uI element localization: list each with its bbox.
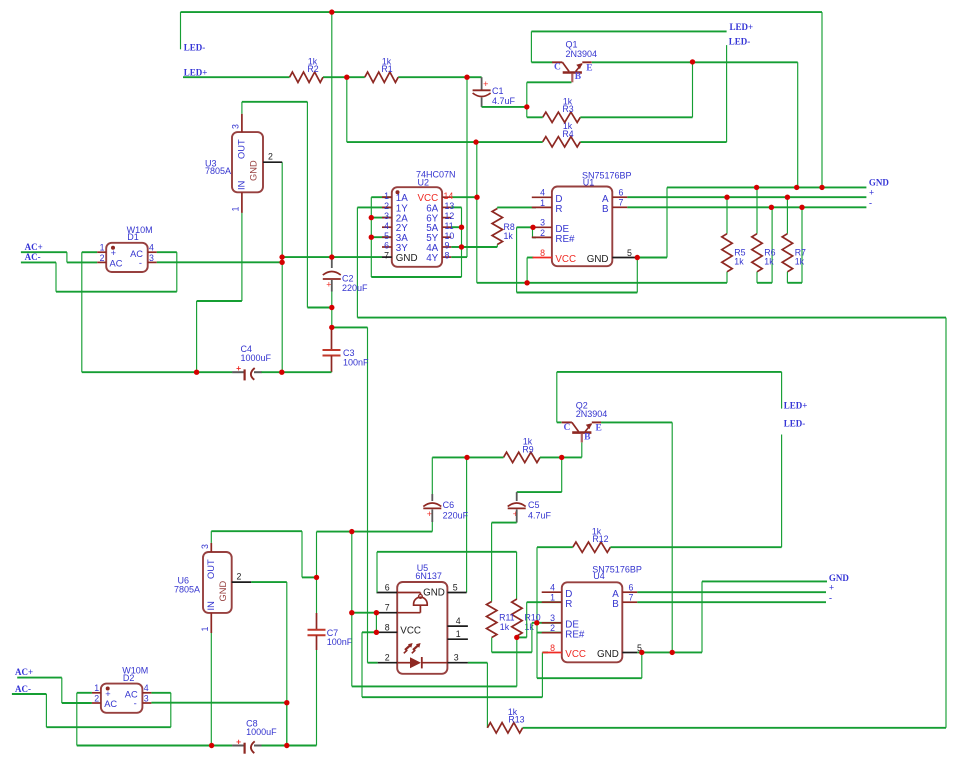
svg-text:220uF: 220uF	[342, 283, 368, 293]
svg-text:2: 2	[385, 653, 390, 663]
svg-text:+: +	[483, 79, 488, 89]
svg-text:U2: U2	[418, 178, 430, 188]
svg-text:2N3904: 2N3904	[566, 49, 598, 59]
wire LED- right vertical to R4	[726, 45, 728, 142]
wire LED- stub left	[180, 12, 182, 49]
wire AC- to D1 pin4	[21, 252, 177, 292]
svg-text:3: 3	[540, 218, 545, 228]
capacitor C8 1000uF	[232, 719, 277, 754]
svg-text:+: +	[111, 248, 116, 258]
svg-text:-: -	[139, 258, 142, 268]
svg-text:4: 4	[144, 683, 149, 693]
svg-text:3: 3	[149, 253, 154, 263]
wire VCC pin14 feed vertical	[476, 142, 478, 197]
wire VCC1 rail to U1 pin8 and R5	[477, 197, 727, 283]
wire U4 A line to plus label	[637, 591, 826, 593]
capacitor C7 100nF	[308, 613, 353, 650]
svg-text:LED-: LED-	[729, 37, 751, 47]
wire Q2 collector to LED+ label bottom	[557, 372, 782, 423]
wire U1 pin5 GND to GND1 line	[637, 187, 667, 257]
svg-text:B: B	[575, 72, 582, 82]
voltage regulator U3 7805A	[205, 114, 282, 213]
resistor R7 1k	[782, 197, 806, 283]
svg-text:2: 2	[100, 253, 105, 263]
svg-text:7: 7	[384, 251, 389, 261]
node LED+ label bottom	[784, 401, 808, 411]
svg-text:9: 9	[445, 241, 450, 251]
svg-text:10: 10	[445, 231, 455, 241]
node minus label right top	[869, 198, 872, 208]
svg-text:LED-: LED-	[184, 43, 206, 53]
wire U2 pins 13 11 9 tie	[451, 207, 461, 277]
optocoupler U5 6N137	[377, 563, 468, 674]
wire DE RE jumper to GND2 row	[537, 652, 642, 678]
svg-text:5: 5	[627, 248, 632, 258]
node GND label bottom	[829, 573, 850, 583]
wire U6 GND down	[251, 582, 286, 745]
wire DE RE to GND	[517, 227, 638, 292]
wire U2 inputs tie pins 1 3 5	[371, 197, 461, 277]
svg-text:1k: 1k	[500, 622, 510, 632]
wire C4 raw plus rail	[82, 252, 233, 372]
resistor R4	[543, 121, 581, 147]
node LED- label left	[184, 43, 206, 53]
svg-text:C2: C2	[342, 274, 354, 284]
svg-text:100nF: 100nF	[343, 358, 369, 368]
svg-text:1: 1	[384, 191, 389, 201]
svg-text:R4: R4	[562, 129, 573, 139]
svg-text:C6: C6	[443, 500, 455, 510]
wire U5 pin6 to R10 top	[377, 552, 517, 599]
svg-text:VCC: VCC	[400, 626, 421, 637]
capacitor C5 4.7uF	[508, 457, 562, 522]
node GND label right top	[869, 178, 890, 188]
svg-text:GND: GND	[423, 587, 445, 598]
wire GND2 label line	[702, 581, 827, 652]
svg-text:11: 11	[445, 221, 454, 231]
svg-text:-: -	[869, 198, 872, 208]
svg-text:R11: R11	[499, 612, 515, 622]
svg-text:7: 7	[385, 603, 390, 613]
node LED- label right	[729, 37, 751, 47]
svg-text:4: 4	[149, 243, 154, 253]
wire U4 pin5 GND row	[637, 651, 702, 653]
wire AC+ to D1 pin2	[21, 252, 97, 262]
wire LED- label bottom to R12	[781, 435, 783, 548]
node AC- label bottom	[15, 684, 31, 694]
wire U3 IN from C4 plus	[197, 213, 242, 372]
svg-text:U4: U4	[593, 571, 605, 581]
svg-text:1000uF: 1000uF	[246, 727, 277, 737]
wire VCC1 from R1/R2 node down to R4 line	[346, 77, 348, 142]
wire R9 line GND2	[432, 456, 561, 458]
svg-text:+: +	[869, 187, 874, 197]
resistor R12 1k	[573, 526, 611, 552]
svg-text:2N3904: 2N3904	[576, 409, 608, 419]
svg-text:1k: 1k	[764, 256, 774, 266]
svg-text:B: B	[602, 204, 609, 215]
bridge rectifier D1 W10M	[97, 225, 157, 272]
svg-text:+: +	[427, 509, 432, 519]
svg-text:3: 3	[454, 653, 459, 663]
svg-text:R1: R1	[381, 64, 392, 74]
node plus label bottom	[829, 583, 834, 593]
wire C7 column VCC2	[316, 532, 318, 613]
wire R11 bottom to DE node	[492, 623, 537, 653]
node AC+ label bottom	[15, 667, 33, 677]
svg-text:C: C	[554, 63, 561, 73]
capacitor C3 100nF	[323, 327, 370, 372]
svg-text:C3: C3	[343, 348, 355, 358]
svg-text:-: -	[134, 698, 137, 708]
svg-text:GND: GND	[396, 253, 418, 264]
wire AC+ to D2 pin2	[17, 678, 92, 703]
svg-text:1k: 1k	[504, 231, 514, 241]
svg-text:OUT: OUT	[206, 559, 216, 579]
svg-text:-: -	[829, 593, 832, 603]
capacitor C6 220uF	[423, 457, 468, 531]
svg-text:+: +	[326, 280, 331, 290]
svg-text:U1: U1	[583, 178, 595, 188]
wire Q2 base node	[562, 443, 582, 458]
resistor R2	[290, 57, 323, 83]
svg-text:8: 8	[445, 251, 450, 261]
wire Q1 base	[527, 82, 572, 107]
svg-text:6: 6	[619, 188, 624, 198]
svg-text:7805A: 7805A	[205, 166, 231, 176]
svg-text:VCC: VCC	[565, 649, 586, 660]
svg-text:GND: GND	[597, 649, 619, 660]
svg-text:8: 8	[550, 643, 555, 653]
node LED+ label right	[730, 22, 754, 32]
wire Q2 emitter to GND2	[601, 422, 672, 652]
resistor R5 1k	[722, 197, 746, 283]
svg-text:5: 5	[384, 231, 389, 241]
svg-text:R12: R12	[592, 534, 608, 544]
wire GND1 label line	[667, 186, 866, 188]
rs485 transceiver U4 SN75176BP	[542, 564, 642, 662]
svg-text:AC+: AC+	[25, 242, 43, 252]
svg-text:AC: AC	[104, 699, 117, 709]
svg-text:1: 1	[100, 243, 105, 253]
wire U5 pin5 to R9 line	[466, 457, 468, 592]
svg-text:3: 3	[550, 613, 555, 623]
wire U2 pin8 4Y from LED+ node	[451, 77, 467, 257]
transistor Q1 2N3904	[552, 40, 597, 83]
svg-text:1000uF: 1000uF	[241, 353, 272, 363]
svg-text:GND: GND	[249, 160, 259, 181]
node AC+ label top	[25, 242, 43, 252]
svg-text:100nF: 100nF	[327, 637, 353, 647]
wire B minus line	[627, 206, 866, 208]
wire DE-RE tie U1	[533, 227, 537, 237]
wire D2 plus to C8 rail	[77, 693, 233, 746]
svg-text:C5: C5	[528, 500, 540, 510]
svg-text:R9: R9	[522, 444, 533, 454]
wire GND1 rail upper	[282, 256, 382, 258]
svg-text:3: 3	[200, 544, 210, 549]
svg-text:4: 4	[550, 583, 555, 593]
wire LED+ top right to Q1 collector	[531, 31, 726, 62]
svg-text:AC+: AC+	[15, 667, 33, 677]
svg-text:4.7uF: 4.7uF	[492, 96, 516, 106]
svg-text:1: 1	[550, 593, 555, 603]
wire R8 top to U1 pin1 R	[497, 207, 536, 208]
wire D1 minus rail lower	[157, 261, 282, 263]
capacitor C1 4.7uF	[473, 77, 516, 107]
svg-text:OUT: OUT	[237, 139, 247, 159]
wire C5 bottom to R11 top	[492, 523, 517, 602]
svg-text:8: 8	[540, 248, 545, 258]
wire VCC2 to U4 pin8	[362, 632, 548, 697]
node LED- label bottom	[784, 418, 806, 428]
wire AC- to D2 pin4	[12, 693, 171, 727]
svg-text:2: 2	[540, 228, 545, 238]
svg-text:R: R	[565, 599, 572, 610]
svg-text:220uF: 220uF	[443, 511, 469, 521]
svg-text:3: 3	[144, 693, 149, 703]
svg-text:LED-: LED-	[784, 418, 806, 428]
svg-text:LED+: LED+	[730, 22, 754, 32]
wire Q1 emitter to GND1	[592, 62, 798, 187]
svg-text:B: B	[584, 433, 591, 443]
svg-text:RE#: RE#	[565, 629, 585, 640]
svg-text:AC-: AC-	[15, 684, 31, 694]
svg-text:AC-: AC-	[25, 252, 41, 262]
svg-text:VCC: VCC	[555, 254, 576, 265]
wire C6 bottom line VCC2	[317, 531, 433, 533]
svg-text:6: 6	[629, 583, 634, 593]
svg-text:1k: 1k	[795, 256, 805, 266]
wire C8 minus rail to GND2	[261, 703, 317, 746]
svg-text:4: 4	[540, 188, 545, 198]
node plus label right top	[869, 187, 874, 197]
svg-text:B: B	[612, 599, 619, 610]
svg-text:4.7uF: 4.7uF	[528, 511, 552, 521]
rs485 transceiver U1 SN75176BP	[532, 171, 638, 267]
wire R10 bottom to U4 pin1 R	[517, 602, 562, 637]
wire U6 OUT to VCC2	[211, 531, 316, 577]
svg-text:GND: GND	[829, 573, 850, 583]
hex buffer U2 74HC07N	[382, 170, 456, 267]
svg-text:RE#: RE#	[555, 234, 575, 245]
wire GND1 right vertical	[821, 12, 823, 187]
wire U4 B line to minus label	[637, 601, 826, 603]
svg-text:R: R	[555, 204, 562, 215]
wire C7 bottom to C8 rail	[316, 650, 318, 746]
wire C2 top vertical from GND1	[331, 12, 333, 257]
capacitor C4 1000uF	[232, 344, 271, 380]
svg-text:12: 12	[445, 211, 455, 221]
bridge rectifier D2 W10M	[92, 666, 151, 713]
resistor R10 1k	[512, 599, 541, 637]
svg-text:4: 4	[384, 221, 389, 231]
wire R8 bottom to U2 outputs	[462, 245, 498, 248]
svg-text:IN: IN	[206, 601, 216, 610]
resistor R8 1k	[492, 209, 515, 245]
svg-text:2: 2	[550, 623, 555, 633]
svg-text:2: 2	[384, 201, 389, 211]
svg-text:14: 14	[444, 191, 454, 201]
svg-text:13: 13	[445, 201, 455, 211]
svg-text:1: 1	[94, 683, 99, 693]
svg-text:6: 6	[385, 583, 390, 593]
svg-text:2: 2	[237, 572, 242, 582]
svg-text:C: C	[564, 423, 571, 433]
svg-text:4: 4	[456, 616, 461, 626]
svg-text:+: +	[105, 689, 110, 699]
wire C1 bottom to base node	[482, 106, 527, 108]
wire U3 OUT to C2 plus node	[242, 102, 332, 308]
svg-text:5: 5	[453, 583, 458, 593]
svg-text:LED+: LED+	[184, 68, 208, 78]
resistor R13 1k	[487, 707, 524, 733]
svg-text:2: 2	[94, 693, 99, 703]
svg-text:1: 1	[540, 198, 545, 208]
resistor R6 1k	[752, 187, 776, 282]
svg-text:R3: R3	[562, 104, 573, 114]
voltage regulator U6 7805A	[174, 543, 251, 633]
wire U2 pin14 VCC	[451, 196, 477, 198]
svg-text:1: 1	[456, 629, 461, 639]
resistor R1	[365, 57, 398, 83]
svg-text:7805A: 7805A	[174, 585, 200, 595]
wire R4 right to LED- vertical	[580, 141, 726, 143]
node minus label bottom	[829, 593, 832, 603]
svg-text:6N137: 6N137	[415, 571, 442, 581]
wire VCC1 to U5 anode long vertical	[332, 327, 378, 662]
svg-text:GND: GND	[218, 581, 228, 602]
wire VCC1 node down to C3	[331, 308, 333, 328]
wire GND1 top horizontal	[181, 11, 823, 13]
wire R12 left to DE RE U4	[537, 547, 573, 678]
wire U5 pin3 to R13	[468, 663, 488, 728]
wire VCC2 long line to R10	[352, 637, 517, 686]
wire R4 line left	[347, 141, 543, 143]
svg-text:7: 7	[629, 593, 634, 603]
wire LED+ net	[183, 76, 482, 78]
node AC- label top	[25, 252, 41, 262]
svg-text:R2: R2	[307, 64, 318, 74]
resistor R3	[543, 97, 581, 123]
svg-text:+: +	[236, 737, 241, 747]
transistor Q2 2N3904	[557, 401, 607, 443]
svg-text:IN: IN	[237, 181, 247, 190]
wire D2 minus row GND2	[151, 702, 286, 704]
resistor R11 1k	[487, 602, 515, 638]
svg-text:+: +	[236, 363, 241, 373]
wire U2 pin2 1Y long route to R13	[357, 207, 946, 727]
wire R3 left from C1/base node	[527, 107, 543, 117]
svg-text:LED+: LED+	[784, 401, 808, 411]
svg-text:2: 2	[268, 152, 273, 162]
svg-text:4Y: 4Y	[426, 253, 438, 264]
resistor R9 1k	[504, 437, 540, 463]
svg-text:GND: GND	[869, 178, 890, 188]
wire R3 right up to emitter node	[580, 62, 692, 117]
svg-text:+: +	[829, 583, 834, 593]
wire U3 GND down to C4 minus	[281, 162, 283, 372]
svg-text:3: 3	[384, 211, 389, 221]
svg-text:1: 1	[231, 207, 241, 212]
svg-text:D2: D2	[123, 673, 135, 683]
wire R12 right to LED-	[610, 546, 781, 548]
svg-text:6: 6	[384, 241, 389, 251]
svg-text:1k: 1k	[734, 256, 744, 266]
svg-text:E: E	[596, 424, 602, 434]
svg-text:C1: C1	[492, 86, 504, 96]
wire A plus line	[627, 196, 866, 198]
wire C4 minus rail	[261, 371, 332, 373]
svg-text:8: 8	[385, 622, 390, 632]
wire U6 IN from C8 rail	[210, 633, 212, 746]
svg-text:7: 7	[619, 198, 624, 208]
capacitor C2 220uF	[323, 257, 368, 307]
svg-text:AC: AC	[110, 258, 123, 268]
svg-text:3: 3	[231, 124, 241, 129]
svg-text:GND: GND	[587, 254, 609, 265]
svg-text:R13: R13	[508, 715, 524, 725]
svg-text:E: E	[586, 63, 592, 73]
svg-text:Q1: Q1	[566, 40, 578, 50]
wire VCC2 to U5 pins 7 8	[352, 532, 377, 687]
svg-text:1: 1	[200, 627, 210, 632]
node LED+ label left	[184, 68, 208, 78]
svg-text:D1: D1	[127, 232, 139, 242]
